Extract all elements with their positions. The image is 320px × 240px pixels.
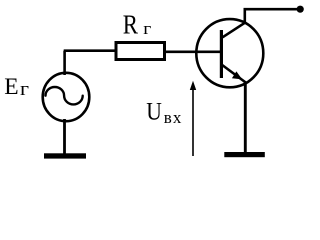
input voltage arrowhead xyxy=(190,81,196,90)
ground left bar xyxy=(44,153,86,158)
transistor emitter arrowhead xyxy=(232,71,242,79)
wire source bottom vertical xyxy=(63,119,66,154)
label E_g (source E) xyxy=(4,74,29,100)
label U_in xyxy=(146,99,182,128)
label R_g xyxy=(123,9,152,40)
svg-text:U: U xyxy=(146,99,162,126)
AC source G1 circle xyxy=(43,73,90,121)
transistor base bar xyxy=(220,30,223,78)
wire collector vertical xyxy=(244,9,247,23)
wire emitter vertical xyxy=(244,82,247,154)
output terminal dot xyxy=(297,6,304,13)
wire source top vertical xyxy=(63,51,66,75)
wire source to resistor horizontal xyxy=(64,49,117,52)
transistor collector diagonal xyxy=(223,23,246,38)
svg-text:вх: вх xyxy=(164,108,183,127)
svg-text:E: E xyxy=(4,74,18,100)
resistor R_g body xyxy=(116,43,165,60)
svg-text:R: R xyxy=(123,9,139,40)
transistor VT1 circle xyxy=(196,19,263,87)
input voltage arrow line xyxy=(192,88,194,156)
ground right bar xyxy=(224,152,264,157)
transistor emitter diagonal xyxy=(222,65,246,83)
wire resistor to base xyxy=(165,50,222,53)
svg-text:г: г xyxy=(20,79,29,100)
AC source sine wave xyxy=(46,87,83,104)
wire collector to output top xyxy=(244,8,301,11)
svg-text:г: г xyxy=(143,19,151,38)
